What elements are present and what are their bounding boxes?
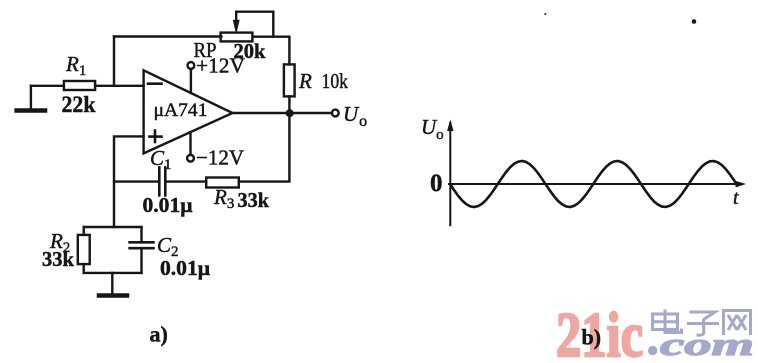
svg-text:0.01μ: 0.01μ [160,256,210,280]
svg-text:R: R [298,69,312,93]
svg-text:b): b) [582,325,602,350]
wire ground to R1 [31,85,64,87]
resistor R1 [64,81,95,90]
node output junction [286,109,294,117]
sine waveform [450,161,738,207]
wire feedback top [114,35,221,37]
wire pot to R branch [253,37,290,65]
axis t (horizontal) [449,181,746,187]
svg-text:33k: 33k [42,247,74,271]
watermark zi (child) [687,312,719,335]
svg-text:22k: 22k [62,92,96,117]
svg-text:10k: 10k [322,69,349,93]
ground (input) [17,86,45,111]
capacitor C1 [159,167,165,195]
capacitor C2 [130,227,154,273]
wire R3 to C1 [165,180,206,182]
resistor R2 [78,227,90,273]
wire R1 to inverting input [95,85,144,87]
-12V supply terminal [187,132,244,170]
speck (scan noise) [692,19,697,24]
resistor R3 [206,178,239,188]
svg-text:t: t [733,187,739,209]
svg-text:−12V: −12V [196,146,244,170]
wire noninverting input [114,136,144,227]
wire C1 to node [114,180,159,182]
svg-text:com: com [660,326,754,358]
wire R2C2 bottom [84,272,142,274]
svg-text:33k: 33k [238,188,270,212]
resistor R 10k [284,64,295,96]
wire output down to R3 [239,113,290,181]
watermark dian (electric) [653,310,682,333]
speck (scan noise) [544,13,546,15]
svg-text:+12V: +12V [196,54,245,78]
wire R2C2 top [84,226,142,228]
svg-text:0.01μ: 0.01μ [143,193,193,217]
op-amp U1 uA741 [144,70,233,153]
wire R to output node [288,96,290,113]
output terminal Uo [332,102,367,130]
watermark wang (net) [724,311,751,336]
axis Uo (vertical) [447,120,453,226]
watermark .com [648,326,754,362]
potentiometer RP [221,12,274,42]
svg-text:a): a) [150,322,168,347]
svg-text:μA741: μA741 [154,100,208,121]
wire feedback vertical [113,37,115,86]
+12V supply terminal [188,54,246,94]
wire op-amp output [233,112,332,114]
ground (R2C2) [99,273,127,296]
svg-text:0: 0 [430,170,443,197]
